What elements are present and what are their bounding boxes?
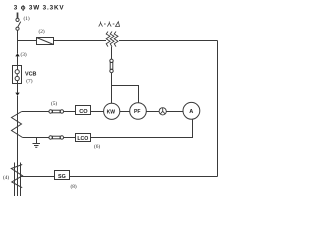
wire incoming stub bbox=[17, 13, 19, 19]
wire secondary to SG bbox=[22, 176, 55, 178]
transformer T primary winding (zigzag) bbox=[12, 112, 23, 138]
svg-text:SG: SG bbox=[58, 174, 66, 180]
svg-text:LCO: LCO bbox=[77, 136, 88, 142]
wire SG to right edge bbox=[70, 176, 218, 178]
svg-text:A: A bbox=[189, 109, 193, 115]
winding connection label 人-人-△ bbox=[99, 22, 120, 27]
drawout contact upper (3) bbox=[15, 53, 19, 56]
wire KW to PF bbox=[120, 111, 130, 113]
svg-text:(8): (8) bbox=[71, 183, 77, 190]
svg-text:(5): (5) bbox=[51, 100, 57, 107]
wire PT secondary drop bbox=[111, 47, 113, 60]
wire metering top (to fuse 5) bbox=[22, 111, 49, 113]
wire fuse to KW top bbox=[111, 73, 113, 104]
wire PF to lamp bbox=[146, 111, 159, 113]
meter A bbox=[183, 102, 200, 119]
wire PT to right edge bbox=[119, 40, 218, 42]
meter PF bbox=[130, 103, 147, 120]
wire fuse5 to CO bbox=[64, 111, 76, 113]
wire VCB to drawout bbox=[17, 81, 19, 93]
wire lamp to A bbox=[166, 111, 183, 113]
svg-text:CO: CO bbox=[79, 109, 88, 115]
wire branch to fuse (2) bbox=[18, 40, 37, 42]
svg-text:KW: KW bbox=[107, 109, 116, 115]
svg-text:(7): (7) bbox=[26, 77, 32, 84]
wire fuse to PT bbox=[54, 40, 107, 42]
fuse PT secondary bbox=[110, 59, 113, 73]
svg-text:(2): (2) bbox=[39, 28, 45, 35]
fuse F2 (2) bbox=[37, 38, 54, 45]
wire metering bottom bbox=[23, 137, 49, 139]
fuse F5 (5) bbox=[49, 110, 64, 113]
svg-text:PF: PF bbox=[134, 109, 141, 115]
wire main vertical upper bbox=[17, 30, 19, 53]
indicator lamp bbox=[159, 108, 166, 115]
transformer T secondary (delta feeder) (4) bbox=[11, 163, 22, 197]
wire right edge vertical bbox=[217, 41, 219, 177]
relay CO bbox=[76, 106, 91, 116]
svg-text:(3): (3) bbox=[21, 51, 27, 58]
wire into VCB bbox=[17, 56, 19, 69]
svg-text:VCB: VCB bbox=[25, 72, 36, 78]
wire fuse to LCO bbox=[64, 137, 76, 139]
drawout contact lower bbox=[15, 93, 19, 96]
relay LCO (6) bbox=[76, 134, 91, 143]
breaker VCB (7) bbox=[13, 66, 22, 84]
disconnect switch DS (1) bbox=[16, 18, 21, 30]
potential transformer PT windings (3 zigzag strands) bbox=[106, 32, 118, 47]
svg-text:(6): (6) bbox=[94, 143, 100, 150]
fuse F6 lower bbox=[49, 136, 64, 139]
relay SG (8) bbox=[55, 171, 70, 181]
wire LCO to A meter bottom bbox=[91, 119, 193, 137]
ground bbox=[33, 138, 41, 148]
svg-text:3 ϕ 3W 3.3KV: 3 ϕ 3W 3.3KV bbox=[14, 5, 65, 12]
wire CO to KW bbox=[91, 111, 104, 113]
wire branch to PF top bbox=[112, 86, 139, 103]
meter KW bbox=[104, 103, 120, 119]
svg-text:(4): (4) bbox=[3, 174, 9, 181]
svg-text:(1): (1) bbox=[24, 15, 30, 22]
wire main vertical lower bbox=[17, 96, 19, 196]
